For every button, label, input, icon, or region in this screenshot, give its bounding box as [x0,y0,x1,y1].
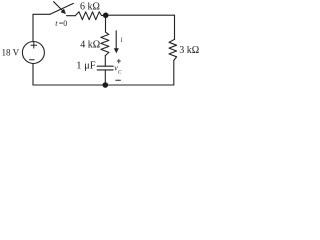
wire top rail [106,14,175,16]
voltage source circle [22,42,44,64]
svg-text:18 V: 18 V [2,47,20,57]
node dot top [103,13,109,19]
node dot bottom [103,82,109,88]
switch blade [50,3,73,14]
capacitor bottom plate [97,69,113,71]
svg-text:6 kΩ: 6 kΩ [80,2,100,13]
switch motion arrow line [54,2,63,11]
wire top-left horizontal [33,13,50,15]
source plus sign [31,43,37,49]
wire node to 4k [105,15,107,32]
source minus sign [30,59,35,61]
svg-text:t=0: t=0 [55,19,67,28]
current arrow line [115,31,117,49]
svg-text:3 kΩ: 3 kΩ [179,45,199,56]
svg-text:C: C [118,70,122,76]
resistor 4 kOhm zigzag [101,32,109,55]
wire left vertical [32,14,34,41]
capacitor plus sign [117,59,120,63]
capacitor minus sign [116,79,121,81]
current arrowhead [114,48,119,53]
svg-text:i: i [121,36,123,44]
wire 4k to capacitor [104,56,106,67]
wire capacitor to bottom rail [104,70,106,85]
resistor 3 kOhm zigzag [169,39,177,60]
wire 6k to node [102,14,106,16]
capacitor top plate [97,65,113,67]
svg-text:1 μF: 1 μF [76,61,96,72]
switch arrowhead [61,9,66,14]
wire right vertical upper [174,15,176,39]
wire switch right lead [67,15,76,17]
wire bottom rail [33,84,174,86]
wire right vertical lower [173,60,175,85]
resistor 6 kOhm zigzag [75,12,101,20]
svg-text:4 kΩ: 4 kΩ [80,39,100,50]
wire source bottom vertical [32,63,34,85]
